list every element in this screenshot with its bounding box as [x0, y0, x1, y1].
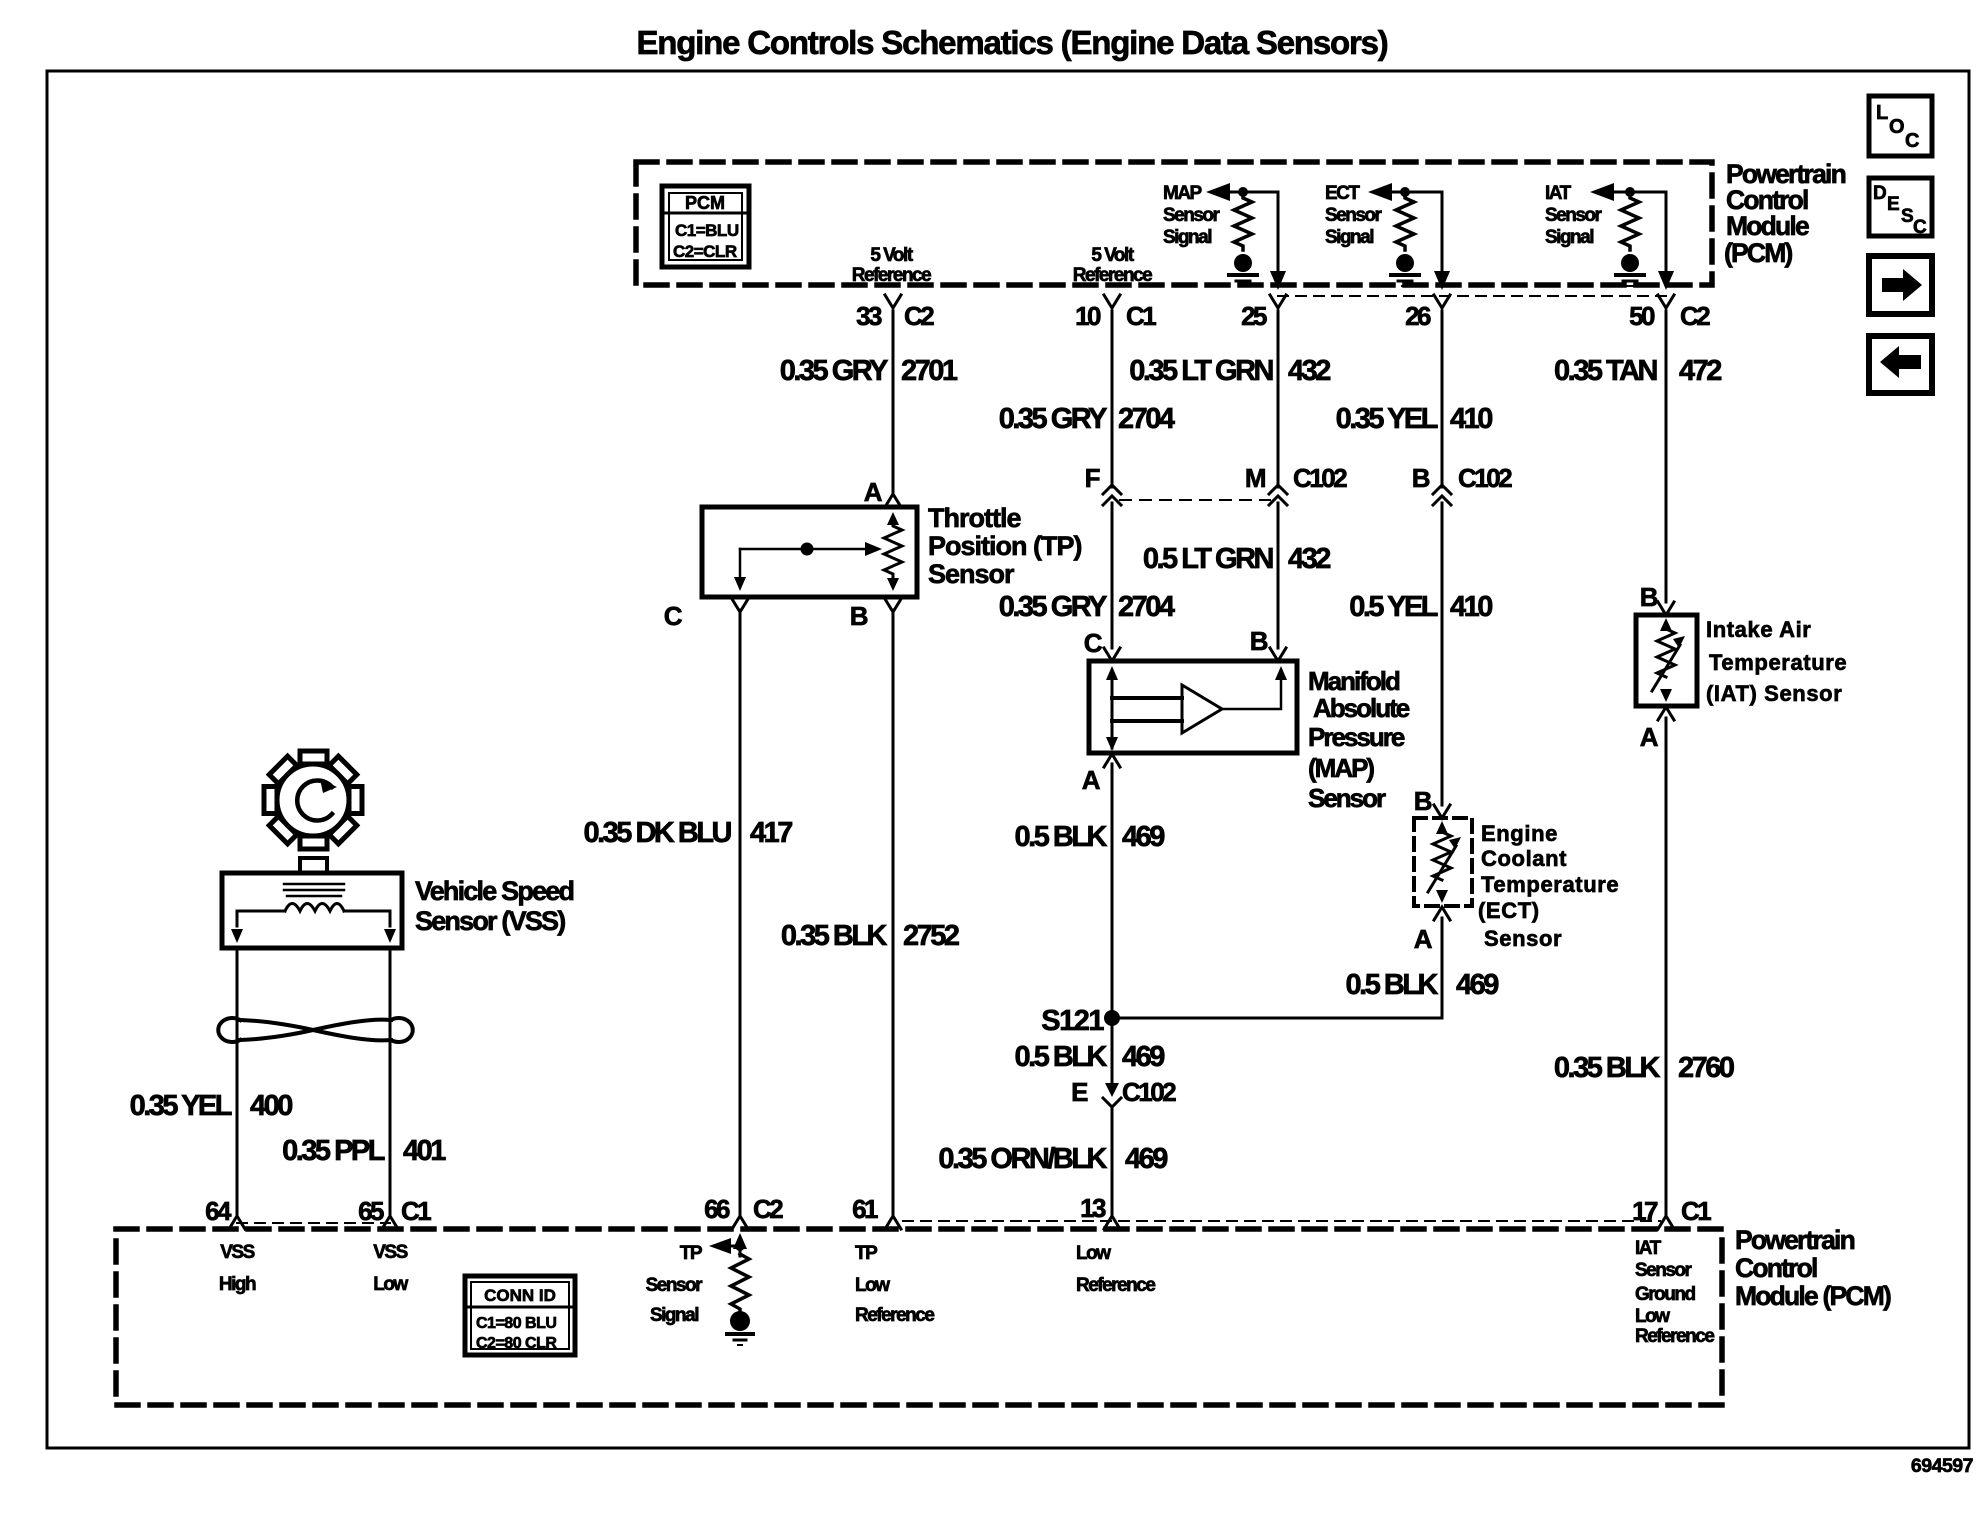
label 0.35 YEL 400: [130, 1090, 293, 1122]
svg-text:B: B: [850, 601, 868, 631]
wire 25 to M (0.35 LT GRN 432): [1277, 311, 1280, 487]
label 0.35 YEL 410: [1336, 403, 1493, 435]
svg-text:C2=CLR: C2=CLR: [673, 242, 737, 261]
svg-text:432: 432: [1288, 543, 1330, 575]
wire IAT A to pin 17 (0.35 BLK 2760): [1665, 718, 1668, 1214]
wire VSS high to pin 64 (0.35 YEL 400): [236, 948, 239, 1214]
label 0.35 DK BLU 417: [583, 817, 792, 849]
svg-text:410: 410: [1450, 591, 1492, 623]
svg-text:0.35 GRY: 0.35 GRY: [999, 403, 1107, 435]
label Vehicle Speed Sensor (VSS): [415, 876, 573, 936]
svg-text:C: C: [1084, 628, 1103, 658]
svg-text:417: 417: [750, 817, 792, 849]
VSS coil leads: [237, 911, 285, 926]
junction dot MAP resistor: [1238, 187, 1248, 197]
IAT sensor signal group (PCM internal): [1545, 183, 1674, 290]
svg-text:5 Volt: 5 Volt: [1091, 245, 1134, 266]
desc icon: [1869, 178, 1932, 238]
svg-text:(IAT) Sensor: (IAT) Sensor: [1706, 681, 1842, 706]
PCM bottom dashed box: [116, 1229, 1722, 1405]
TP sensor signal group (PCM internal): [646, 1233, 753, 1345]
svg-text:0.35 BLK: 0.35 BLK: [1554, 1052, 1661, 1084]
label VSS Low: [373, 1242, 408, 1295]
svg-text:432: 432: [1288, 355, 1330, 387]
ground ECT resistor: [1391, 254, 1419, 286]
svg-text:E: E: [1071, 1077, 1088, 1107]
svg-text:Module: Module: [1726, 211, 1809, 241]
pin B terminal: [1270, 648, 1286, 661]
svg-text:C1: C1: [1126, 301, 1156, 331]
svg-text:61: 61: [852, 1194, 878, 1224]
svg-text:0.5 BLK: 0.5 BLK: [1015, 821, 1108, 853]
svg-text:Reference: Reference: [1076, 1275, 1155, 1296]
MAP box: [1089, 661, 1297, 753]
label 0.5 BLK 469 below S121: [1015, 1041, 1166, 1073]
label 0.5 BLK 469: [1015, 821, 1166, 853]
junction dot IAT resistor: [1625, 187, 1635, 197]
svg-text:PCM: PCM: [685, 193, 725, 213]
MAP amplifier triangle: [1182, 685, 1222, 733]
pin 65 C1: [358, 1196, 431, 1229]
label IAT Sensor Ground Low Reference: [1635, 1238, 1714, 1347]
pin C terminal: [732, 599, 748, 612]
svg-text:B: B: [1414, 786, 1432, 816]
svg-text:0.35 PPL: 0.35 PPL: [282, 1135, 385, 1167]
svg-text:2760: 2760: [1678, 1052, 1734, 1084]
svg-text:Signal: Signal: [1163, 227, 1211, 248]
VSS reluctor gear: [264, 751, 362, 849]
svg-text:C: C: [1913, 217, 1927, 238]
splice S121: [1104, 1010, 1120, 1026]
vehicle speed sensor VSS: [222, 858, 402, 948]
svg-text:Throttle: Throttle: [928, 503, 1021, 533]
svg-text:(PCM): (PCM): [1724, 238, 1793, 268]
svg-text:Signal: Signal: [1325, 227, 1373, 248]
svg-text:Sensor: Sensor: [928, 559, 1015, 589]
svg-text:VSS: VSS: [220, 1242, 254, 1263]
svg-text:CONN ID: CONN ID: [484, 1286, 556, 1305]
label TP Low Reference: [855, 1243, 934, 1326]
svg-text:Low: Low: [373, 1274, 408, 1295]
wire MAP signal down to pin 25: [1277, 192, 1280, 272]
svg-text:0.35 TAN: 0.35 TAN: [1554, 355, 1657, 387]
arrow to IAT sensor signal: [1590, 183, 1614, 201]
label 0.35 LT GRN 432: [1129, 355, 1330, 387]
ground IAT resistor: [1616, 254, 1644, 286]
svg-text:Reference: Reference: [852, 265, 931, 286]
svg-text:469: 469: [1456, 969, 1499, 1001]
ECT dashed box: [1414, 818, 1472, 906]
svg-text:Sensor: Sensor: [1163, 205, 1221, 226]
svg-text:Control: Control: [1735, 1253, 1817, 1283]
label 0.5 LT GRN 432: [1143, 543, 1330, 575]
svg-text:694597: 694597: [1911, 1455, 1973, 1477]
svg-text:C102: C102: [1293, 463, 1347, 493]
svg-text:C102: C102: [1458, 463, 1512, 493]
svg-text:0.35 GRY: 0.35 GRY: [999, 591, 1107, 623]
label 0.35 GRY 2704 lower: [999, 591, 1175, 623]
svg-text:2752: 2752: [903, 920, 959, 952]
MAP output wire: [1222, 679, 1281, 709]
pin 17 C1: [1632, 1196, 1711, 1229]
svg-text:Absolute: Absolute: [1313, 693, 1410, 723]
arrow to MAP sensor signal: [1206, 183, 1230, 201]
pin A terminal: [1658, 707, 1674, 720]
internal PCM dashed bus pins 61-17: [903, 1220, 1660, 1222]
label VSS High: [219, 1242, 256, 1295]
svg-text:ECT: ECT: [1325, 183, 1360, 204]
label 0.5 BLK 469 ect: [1346, 969, 1500, 1001]
svg-text:C102: C102: [1122, 1077, 1176, 1107]
svg-text:401: 401: [403, 1135, 446, 1167]
PCM top dashed box: [636, 162, 1712, 285]
svg-text:0.5 LT GRN: 0.5 LT GRN: [1143, 543, 1273, 575]
svg-text:0.35 YEL: 0.35 YEL: [130, 1090, 232, 1122]
connector C102 terminal M: [1245, 463, 1347, 505]
wire ECT signal horizontal: [1388, 191, 1442, 194]
svg-text:0.35 LT GRN: 0.35 LT GRN: [1129, 355, 1272, 387]
VSS coil: [285, 904, 344, 912]
MAP amp rails: [1112, 696, 1182, 700]
svg-text:B: B: [1640, 582, 1658, 612]
svg-text:C2: C2: [1680, 301, 1710, 331]
wire TP C to pin 66 (0.35 DK BLU 417): [739, 610, 742, 1214]
svg-text:Position (TP): Position (TP): [928, 531, 1081, 561]
ground MAP resistor: [1229, 254, 1257, 286]
pin C terminal: [1104, 648, 1120, 661]
svg-text:469: 469: [1125, 1143, 1168, 1175]
svg-text:2704: 2704: [1118, 403, 1175, 435]
svg-text:410: 410: [1450, 403, 1492, 435]
pin 26: [1405, 295, 1450, 331]
svg-text:2701: 2701: [901, 355, 958, 387]
pin B terminal: [1658, 602, 1674, 615]
svg-text:Sensor: Sensor: [1308, 783, 1386, 813]
svg-text:33: 33: [856, 301, 882, 331]
svg-text:Signal: Signal: [1545, 227, 1593, 248]
svg-text:469: 469: [1122, 821, 1165, 853]
wire 26 to B C102 (0.35 YEL 410): [1441, 311, 1444, 487]
connector C102 terminal F: [1085, 463, 1121, 505]
svg-text:Sensor: Sensor: [1635, 1260, 1693, 1281]
svg-text:B: B: [1250, 626, 1268, 656]
Powertrain Control Module (PCM) label bottom right: [1735, 1225, 1891, 1311]
svg-text:L: L: [1876, 102, 1888, 124]
wire MAP signal horizontal: [1226, 191, 1278, 194]
VSS stem: [300, 858, 327, 873]
forward arrow icon: [1869, 256, 1932, 314]
svg-text:Reference: Reference: [1635, 1326, 1714, 1347]
throttle position sensor TP: [664, 477, 917, 631]
svg-text:Module (PCM): Module (PCM): [1735, 1281, 1891, 1311]
label 0.35 BLK 2752: [781, 920, 959, 952]
pin 61: [852, 1194, 901, 1229]
svg-text:Sensor (VSS): Sensor (VSS): [415, 906, 565, 936]
svg-text:C2: C2: [904, 301, 934, 331]
wire IAT signal horizontal: [1610, 191, 1666, 194]
svg-text:C1: C1: [1681, 1196, 1711, 1226]
svg-text:C1: C1: [401, 1196, 431, 1226]
TP box: [702, 507, 917, 597]
svg-text:65: 65: [358, 1196, 384, 1226]
svg-text:Temperature: Temperature: [1709, 650, 1847, 675]
svg-text:A: A: [1640, 722, 1659, 752]
svg-text:High: High: [219, 1274, 256, 1295]
wire MAP A to S121 (0.5 BLK 469): [1111, 764, 1114, 1085]
svg-text:Temperature: Temperature: [1481, 872, 1619, 897]
MAP internal input line: [1111, 680, 1114, 748]
intake air temperature IAT sensor: [1636, 582, 1697, 752]
svg-text:C1=BLU: C1=BLU: [675, 221, 739, 240]
svg-text:Engine: Engine: [1481, 821, 1558, 846]
ground TP resistor: [730, 1311, 750, 1331]
svg-text:C1=80 BLU: C1=80 BLU: [476, 1315, 556, 1332]
svg-text:S121: S121: [1041, 1005, 1104, 1037]
svg-text:Coolant: Coolant: [1481, 846, 1567, 871]
svg-text:Low: Low: [855, 1275, 890, 1296]
svg-text:Low: Low: [1076, 1243, 1111, 1264]
loc icon: [1869, 96, 1932, 156]
svg-text:C: C: [1905, 130, 1919, 152]
wire B C102 to ECT B (0.5 YEL 410): [1441, 503, 1444, 805]
junction dot TP signal: [735, 1241, 745, 1251]
wire ECT A down to S121 junction (0.5 BLK 469): [1441, 918, 1444, 1018]
svg-text:0.35 GRY: 0.35 GRY: [780, 355, 888, 387]
resistor ECT pullup: [1396, 192, 1414, 250]
label 0.35 GRY 2701: [780, 355, 958, 387]
svg-text:0.5 BLK: 0.5 BLK: [1015, 1041, 1108, 1073]
svg-text:A: A: [1082, 765, 1101, 795]
pin 25: [1241, 295, 1286, 331]
pin B terminal: [885, 599, 901, 612]
resistor IAT pullup: [1621, 192, 1639, 250]
pin 50 C2: [1629, 295, 1710, 331]
TP wiper wire down: [739, 549, 742, 578]
VSS core lines: [284, 883, 344, 886]
svg-text:A: A: [864, 477, 883, 507]
pin 64: [205, 1196, 245, 1229]
svg-text:S: S: [1901, 206, 1914, 227]
label 5 volt reference C2: [852, 245, 931, 286]
svg-text:13: 13: [1080, 1193, 1106, 1223]
pin 10 C1: [1075, 295, 1156, 331]
svg-text:0.35 YEL: 0.35 YEL: [1336, 403, 1438, 435]
wire 10 to F (0.35 GRY 2704): [1111, 311, 1114, 487]
svg-text:B: B: [1412, 463, 1430, 493]
label 0.35 TAN 472: [1554, 355, 1721, 387]
ECT thermistor: [1436, 821, 1448, 834]
svg-text:0.35 BLK: 0.35 BLK: [781, 920, 888, 952]
svg-text:5 Volt: 5 Volt: [870, 245, 913, 266]
label Manifold Absolute Pressure (MAP) Sensor: [1308, 666, 1410, 813]
svg-text:Ground: Ground: [1635, 1284, 1695, 1305]
svg-text:(MAP): (MAP): [1308, 753, 1374, 783]
wire S121 horizontal: [1112, 1017, 1442, 1020]
svg-text:26: 26: [1405, 301, 1431, 331]
PCM connector id box: [662, 186, 749, 267]
pin 13: [1080, 1193, 1120, 1229]
svg-text:VSS: VSS: [373, 1242, 407, 1263]
svg-text:50: 50: [1629, 301, 1655, 331]
svg-text:Engine Controls Schematics (En: Engine Controls Schematics (Engine Data …: [636, 24, 1387, 61]
label Low Reference pin 13: [1076, 1243, 1155, 1296]
svg-text:TP: TP: [680, 1243, 703, 1264]
wire ECT signal down to pin 26: [1441, 192, 1444, 272]
label 0.35 PPL 401: [282, 1135, 446, 1167]
wire E to pin 13 (0.35 ORN/BLK 469): [1111, 1107, 1114, 1214]
internal PCM dashed bus pins 25-50: [1278, 295, 1666, 297]
engine coolant temperature ECT sensor: [1414, 786, 1472, 954]
svg-text:Sensor: Sensor: [1484, 926, 1562, 951]
svg-text:Vehicle Speed: Vehicle Speed: [415, 876, 573, 906]
TP potentiometer resistor: [887, 512, 899, 525]
svg-text:TP: TP: [855, 1243, 878, 1264]
svg-text:25: 25: [1241, 301, 1267, 331]
wire TP B to pin 61 (0.35 BLK 2752): [892, 610, 895, 1214]
wire pin 66 down inside PCM: [733, 1233, 747, 1249]
svg-text:MAP: MAP: [1163, 183, 1203, 204]
label 5 volt reference C1: [1073, 245, 1152, 286]
label 0.5 YEL 410: [1349, 591, 1492, 623]
svg-text:Reference: Reference: [1073, 265, 1152, 286]
svg-text:A: A: [1414, 924, 1433, 954]
dashed connector line F to M: [1120, 499, 1270, 501]
manifold absolute pressure MAP sensor: [1082, 626, 1297, 795]
svg-text:O: O: [1889, 116, 1905, 138]
twisted pair symbol: [218, 1018, 412, 1042]
svg-text:D: D: [1873, 183, 1887, 204]
wire IAT signal down to pin 50: [1665, 192, 1668, 272]
svg-text:472: 472: [1679, 355, 1721, 387]
label Intake Air Temperature (IAT) Sensor: [1706, 617, 1847, 706]
back arrow icon: [1869, 336, 1932, 393]
svg-text:0.5 YEL: 0.5 YEL: [1349, 591, 1438, 623]
wire VSS low to pin 65 (0.35 PPL 401): [389, 948, 392, 1214]
label 0.35 ORN/BLK 469: [938, 1143, 1168, 1175]
svg-text:Pressure: Pressure: [1308, 722, 1405, 752]
svg-text:17: 17: [1632, 1196, 1658, 1226]
svg-text:0.35 DK BLU: 0.35 DK BLU: [583, 817, 731, 849]
svg-text:Low: Low: [1635, 1306, 1670, 1327]
svg-text:M: M: [1245, 463, 1265, 493]
svg-text:Reference: Reference: [855, 1305, 934, 1326]
pin A terminal: [885, 494, 901, 507]
svg-text:2704: 2704: [1118, 591, 1175, 623]
svg-text:Sensor: Sensor: [1325, 205, 1383, 226]
svg-text:Intake Air: Intake Air: [1706, 617, 1811, 642]
svg-text:Sensor: Sensor: [646, 1275, 704, 1296]
svg-text:400: 400: [250, 1090, 292, 1122]
pin 33 C2: [856, 295, 934, 331]
IAT box: [1636, 615, 1697, 706]
svg-text:(ECT): (ECT): [1478, 898, 1540, 923]
svg-text:0.5 BLK: 0.5 BLK: [1346, 969, 1439, 1001]
wire F to MAP C (0.35 GRY 2704): [1111, 503, 1114, 648]
wire 50 to IAT B (0.35 TAN 472): [1665, 311, 1668, 602]
MAP sensor signal group (PCM internal): [1163, 183, 1286, 290]
resistor MAP pullup: [1234, 192, 1252, 250]
svg-text:Signal: Signal: [650, 1305, 698, 1326]
pin 66 C2: [704, 1194, 783, 1229]
rotation arrow: [297, 780, 332, 820]
arrow to TP sensor signal: [709, 1238, 731, 1254]
pin A terminal: [1104, 754, 1120, 767]
pin A terminal: [1434, 907, 1450, 920]
svg-text:Sensor: Sensor: [1545, 205, 1603, 226]
wire M to MAP B (0.5 LT GRN 432): [1277, 503, 1280, 648]
label Throttle Position (TP) Sensor: [928, 503, 1081, 589]
ECT sensor signal group (PCM internal): [1325, 183, 1450, 290]
TP wiper arrow: [740, 548, 867, 551]
svg-text:C2=80 CLR: C2=80 CLR: [476, 1335, 557, 1352]
svg-text:0.35 ORN/BLK: 0.35 ORN/BLK: [938, 1143, 1107, 1175]
VSS box: [222, 873, 402, 948]
CONN ID box: [465, 1276, 575, 1355]
internal PCM dashed bus pins 64-65: [237, 1222, 390, 1224]
svg-text:Powertrain: Powertrain: [1735, 1225, 1855, 1255]
label Engine Coolant Temperature (ECT) Sensor: [1478, 821, 1619, 951]
label 0.35 GRY 2704: [999, 403, 1175, 435]
svg-text:469: 469: [1122, 1041, 1165, 1073]
connector C102 terminal B: [1412, 463, 1512, 505]
svg-text:10: 10: [1075, 301, 1101, 331]
svg-text:C: C: [664, 601, 683, 631]
IAT thermistor: [1660, 618, 1672, 631]
svg-text:66: 66: [704, 1194, 730, 1224]
svg-text:IAT: IAT: [1545, 183, 1572, 204]
svg-text:F: F: [1085, 463, 1100, 493]
svg-text:C2: C2: [753, 1194, 783, 1224]
wire 33 to TP A (0.35 GRY 2701): [892, 311, 895, 493]
pin B terminal: [1434, 805, 1450, 818]
arrow to ECT sensor signal: [1368, 183, 1392, 201]
svg-text:IAT: IAT: [1635, 1238, 1662, 1259]
svg-text:Manifold: Manifold: [1308, 666, 1400, 696]
Powertrain Control Module (PCM) label top right: [1724, 159, 1846, 268]
connector C102 terminal E: [1071, 1077, 1176, 1107]
resistor TP pulldown: [731, 1254, 749, 1312]
svg-text:64: 64: [205, 1196, 232, 1226]
svg-text:E: E: [1887, 194, 1900, 215]
junction dot ECT resistor: [1400, 187, 1410, 197]
label 0.35 BLK 2760: [1554, 1052, 1734, 1084]
